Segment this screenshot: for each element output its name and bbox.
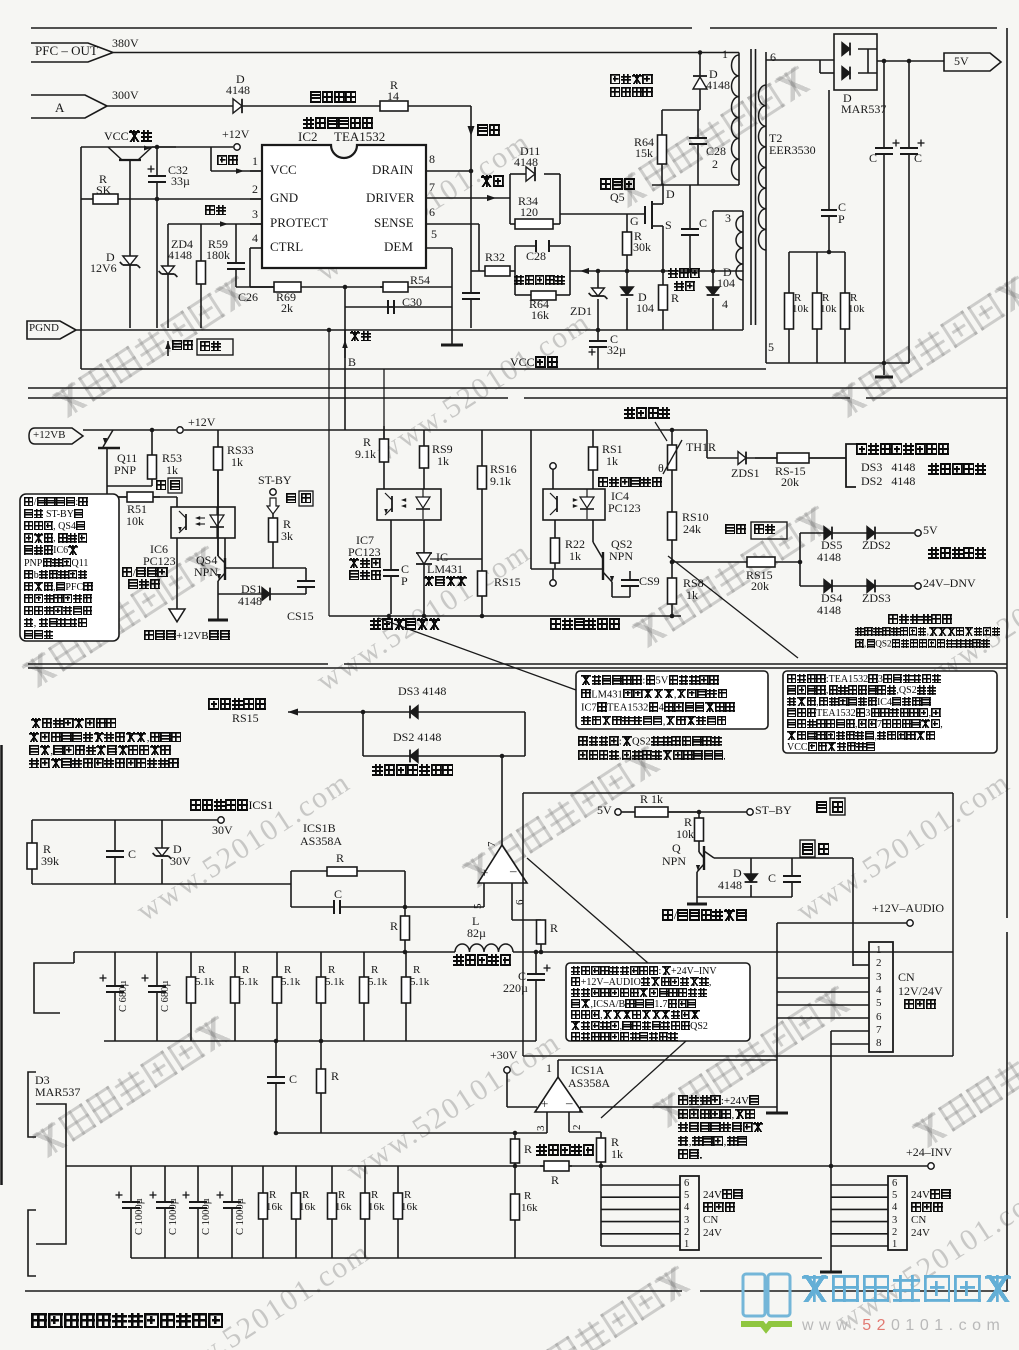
label 4148 ds4 [817,604,841,617]
pin 3 cn [876,972,882,984]
pin cn24L 1 [684,1239,689,1250]
resistor RS15 mid [478,559,487,616]
label R fb [336,852,344,865]
wire x384 vertical from VCC rail [383,369,385,439]
label 4148 [168,249,192,262]
label kai boxed 1 [301,493,312,506]
wire gate Q5 [560,213,645,215]
label 4148 ds5 [817,551,841,564]
label +12V-AUDIO [872,902,944,915]
pin cn24L 4 [684,1202,689,1213]
label D 30v [173,843,182,856]
node PFC-OUT flag [31,43,113,53]
CN pin stubs [853,951,869,953]
ground IC6 [169,609,185,622]
wire pin2 jog [569,1131,601,1133]
pin 8 [429,153,435,166]
capacitor C1000u 0 [116,1166,141,1258]
textbox1 line7 [24,582,93,594]
label guodianya-baohu [928,547,986,560]
label quyang-wucha [370,618,440,631]
resistor R5.1k 0 [187,952,196,1041]
label R51k a5 [413,965,420,977]
wire pin6 lead [766,59,834,61]
resistor R 1k s4 [621,807,699,817]
resistor R SK [81,194,130,204]
label R51k a3 [328,965,335,977]
resistor R53 1k [148,430,157,486]
label guodianliu-baohu [514,275,565,287]
wire secondary bottom rail [766,362,909,364]
label guan s4 [816,801,828,814]
label R54 [410,274,430,287]
pin cn24R 6 [892,1178,897,1189]
ground DEM [441,344,463,347]
label kaiguanji-daoxiang [662,909,747,922]
label LM431 [427,563,463,576]
label C out2 [914,152,922,165]
weixiu-tip l2 [578,750,727,762]
label - a [566,1096,573,1110]
label pin5 [768,341,774,354]
label R32 [485,251,505,264]
pin cn24L 5 [684,1190,689,1201]
pin 3 [252,208,258,221]
label R bl [390,920,398,933]
pin5 ics1b [473,904,485,910]
wire left connector feed [600,1166,602,1246]
wire DS3-DS2 link right [524,712,526,756]
resistor R59 180k [197,224,206,328]
resistor R 10k b [813,252,822,363]
diode ZD4 4148 [159,266,178,277]
textbox2 line0 [581,675,719,687]
resistor R16k 3 [361,1166,370,1258]
label 220u [503,982,528,995]
label R p6 [550,922,558,935]
label R51k b3 [325,977,344,989]
label IC4 [611,490,629,503]
label jianfeng [610,74,653,87]
wire DS3-DS2 link left [362,712,364,756]
label RS-15 [775,465,806,478]
label pin6 [770,51,776,64]
leader ICS1B to box [527,858,648,963]
resistor R5.1k 3 [317,952,326,1041]
pin 4 cn [876,985,882,997]
label qudong-kongzhi [303,117,373,130]
wire audio vertical [776,923,778,1107]
label R69 [276,291,296,304]
wire res top rail [789,251,845,253]
label 120 [520,206,538,219]
resistor RS10 24k [668,512,677,562]
node A flag [31,95,107,106]
label 24v-outR1 [911,1189,951,1202]
label 9.1k rs16 [490,475,511,488]
label + a [541,1097,548,1111]
label R [99,173,107,186]
label ZD1 [570,305,592,318]
label pin3 [725,212,731,225]
arrow hollow STBY [267,498,279,514]
label R oc [524,1143,532,1156]
resistor R 10k c [841,252,850,363]
label kaiguanguan [600,178,635,191]
transistor QS4 NPN [217,470,225,620]
resistor R5.1k 4 [360,952,369,1041]
label guodianliu [668,268,700,281]
text24v line1 [678,1109,756,1122]
label C s4 [768,872,776,885]
label RS9 [432,443,453,456]
capacitor C 32u [589,330,608,369]
protect circuit text box [783,671,997,753]
resistor R16k 4 [394,1166,403,1258]
pin cn24R 3 [892,1215,897,1226]
erci l1 [31,718,117,731]
wire R14 to startup node [408,105,471,107]
label RS10 [682,511,709,524]
label VCC-gongdian [510,356,558,369]
resistor RS15 20k low [747,557,775,567]
label T2 [769,132,782,145]
label R 3k [283,518,291,531]
resistor R 10k s4 [695,812,704,852]
feedback loop ICS1B [290,871,292,907]
bracket overcurrent sense [846,444,856,487]
label +12VB [33,430,65,442]
label DS4 [821,592,842,605]
label qu-baohu [190,799,273,812]
resistor R5.1k 5 [402,952,411,1041]
label 30V [212,824,233,837]
text boxes row [576,671,768,729]
caption [31,1312,224,1330]
pin 6 cn [876,1012,882,1024]
label DS2 4148 [393,731,441,744]
label C 220 [518,970,526,983]
label R16k a2 [338,1190,345,1202]
label 24v-out L2 [703,1202,735,1215]
label wucha-fangda [424,576,467,589]
label R51k b0 [195,977,214,989]
label jie-baohu [208,698,266,711]
node +30V terminal [504,1067,510,1073]
wire R69-R54 bus [236,286,452,288]
pin 7 cn [876,1025,882,1037]
resistor R69 2k [250,282,301,292]
wire pin1 out [558,1059,777,1061]
capacitor CS15 [297,568,315,594]
CN 24V left stubs [601,1184,680,1186]
weixiu-tip l1 [578,736,722,748]
label IC lm431 [436,551,448,564]
resistor R32 [471,266,515,276]
logo url [802,1317,1005,1334]
label 5V out [954,55,969,68]
resistor R14 [380,101,408,111]
diode D 104 b [707,287,720,295]
wire emitter to +12V [152,146,233,148]
label 32u [607,344,626,357]
label A [55,101,64,115]
label 1k rs8 [686,589,698,602]
resistor RS9 1k [420,430,429,489]
diode DS1 4148 [262,588,270,601]
label 12V6 [90,262,117,275]
wire zener to PGND [129,265,131,328]
resistor R5.1k 2 [273,952,282,1041]
label guan boxed [170,480,181,493]
label kaiguanji-guang [122,567,168,580]
wire 12VB rail [83,429,176,431]
label guodianliu-quyang s4 [536,1144,594,1157]
textbox2 line3 [581,716,727,728]
frame section divider 2b [28,667,1007,669]
label 24v-out L3 [703,1215,718,1227]
textbox1 line0 [24,497,88,509]
label R59 [208,238,228,251]
wire vertical DS rows [799,533,801,586]
label 14 [387,90,399,103]
node PGND flag [27,321,76,339]
wire loop to pin5 [405,906,484,908]
test point circle IC4 bottom [552,569,554,580]
label C680 1 [160,981,171,1012]
label R51 [127,503,147,516]
wire QS2 emitter row [612,596,630,598]
diode ZDS2 [867,527,875,540]
label lianjieqi cn1 [904,999,936,1012]
label R16k a0 [269,1190,276,1202]
capacitor C out2 [900,61,925,363]
label D snub [709,68,718,81]
label PFC-OUT [35,44,98,58]
label NPN qs2 [609,550,633,563]
label 3k [281,530,293,543]
label R 39k a [43,843,51,856]
wire left vertical VCC [80,147,82,369]
optocoupler IC7 PC123 box [377,489,441,520]
label R51k b2 [281,977,300,989]
wire D11/R34 loop [509,174,511,224]
wire mid bottom bus [329,615,681,617]
wire IC7 right pin to LM431 [423,520,425,553]
label L [472,915,479,928]
label R16k b2 [335,1202,352,1214]
diode D 4148 snubber [693,53,707,111]
label ZDS2 [862,539,891,552]
label ST-BY [258,474,292,487]
textbox1 line6 [24,570,87,582]
label guodianliu-baohu 2 [928,463,986,476]
wire SENSE pin6 [426,223,479,225]
wire QS2 branch from top bus [530,430,532,569]
label RS33 [227,444,254,457]
wire 300V to D [107,105,233,107]
label R53 [162,452,182,465]
wire 30V rail [32,819,218,821]
label zhengchang [172,340,193,353]
wire rail left end down [73,952,75,963]
wire opamp right base [579,1107,581,1112]
leader to protect box [668,556,798,658]
resistor R5.1k 1 [231,952,240,1041]
pin 6 [429,206,435,219]
label R16k b4 [401,1202,418,1214]
label C p2 [401,563,409,576]
label TH1R [686,441,716,454]
textbox1 line3 [24,533,87,545]
wire DEM pin5 vertical [426,247,452,249]
thermistor TH1R [663,428,682,512]
label guan boxed s4 [802,843,814,856]
node ST-BY terminal [270,489,276,495]
optocoupler IC4 PC123 box [543,489,605,520]
wire C30 branch [345,306,452,308]
label R mid4 [331,1070,339,1083]
label - b [510,864,517,878]
label SK [96,184,111,197]
label wenya-guang [349,558,381,571]
label R51k a4 [371,965,378,977]
label R51k a0 [198,965,205,977]
label kai s4 boxed [832,801,844,814]
erci l4 [29,758,179,771]
pin cn24R 1 [892,1239,897,1250]
label C1000 2 [201,1198,212,1235]
wire filter bottom rail [32,883,291,885]
label 24k [683,523,701,536]
transformer T2 secondary winding [765,52,767,363]
textbox1 line11 [24,630,53,642]
pin 8 cn [876,1038,882,1050]
label R16k b0 [266,1202,283,1214]
label qidong [477,124,500,137]
wire audio rail [777,922,907,924]
label jili [481,175,504,188]
label C filt [128,848,136,861]
pin name GND [270,191,298,205]
label PNP [114,464,136,477]
label wenya [350,331,371,344]
winding primary 3-4 [736,216,743,280]
logo site name [801,1274,1014,1305]
leader box to ICS1A [601,1041,686,1118]
resistor RS1 1k [589,430,598,489]
resistor R64 15k [658,110,667,185]
wire x329 vertical [328,330,330,616]
label ZDS3 [862,592,891,605]
label kai [156,480,167,493]
textbox1 line8 [24,594,92,606]
connector CN 12V/24V box [869,942,893,1052]
label R51k b1 [239,977,258,989]
label 12V/24V [898,985,943,998]
label QS4 [196,554,217,567]
wire bottom rail 24V [131,1257,822,1259]
label PC123 ic6 [143,555,176,568]
resistor R 1k a4 [597,1132,606,1166]
label C680 0 [118,981,129,1012]
label 10kc [848,304,865,316]
label R16k b6 [521,1203,538,1215]
ground secondary [875,376,893,379]
label guodianliu-quyang 4 [453,954,511,967]
label D mar [843,92,852,105]
textbox4 line1 [571,977,711,989]
pin3 ics1a [536,1126,548,1132]
rectifier D MAR537 box [834,34,877,90]
label C26 [238,291,258,304]
diode ZDS3 [867,580,875,593]
label MAR537 d3 [35,1086,80,1099]
wire Q11 collector to R51 [107,485,152,487]
diode D 30V zener [161,820,163,848]
transistor QS2 NPN [593,520,614,597]
label ICS1A [571,1064,604,1077]
resistor R16k 0 [259,1166,268,1258]
textbox4 line6 [571,1032,678,1044]
label 1k rs33 [231,456,243,469]
diode ZD1 [597,271,599,288]
resistor R oc [511,1133,520,1166]
node 5V s4 [615,809,621,815]
winding secondary [759,85,766,250]
pin cn24R 2 [892,1227,897,1238]
label DS1 [241,583,262,596]
text24v line3 [678,1136,748,1149]
pin name CTRL [270,240,303,254]
label R22 [565,538,585,551]
label R sense [671,292,679,305]
node +12V mid terminal [177,427,183,433]
transformer core [750,49,752,325]
op-amp ICS1B AS358A [478,756,527,920]
resistor R 30k [623,214,632,271]
wire 380V bus [113,52,739,54]
capacitor C1000u 1 [150,1166,175,1258]
wire QS4 base [225,567,306,569]
wire startup vertical [470,106,472,293]
pin 7 [429,181,435,194]
rectifier D3 MAR537 block [28,1072,36,1137]
frame top border [31,27,692,29]
wire R51 to IC6 [153,496,177,498]
label guan-kai 2 [800,840,815,857]
label 24v-out L4 [703,1228,722,1240]
label 30V z [170,855,191,868]
label kaiguanji+12VB [144,630,230,643]
wire ground s4 [580,1106,777,1108]
text24v line0 [678,1095,760,1108]
label D [106,251,115,264]
resistor R 9.1k [380,426,389,489]
label 380V [112,37,139,50]
pin cn24L 3 [684,1215,689,1226]
wire DS1 row [218,593,306,595]
op-amp IC2 TEA1532 box [262,145,426,268]
label EER3530 [769,144,816,157]
label guan kai 1 [286,493,297,506]
label 20k low [751,580,769,593]
node +12VB flag [29,428,83,444]
resistor R16k 6 [511,1166,520,1258]
inductor L 82u [455,944,513,952]
capacitor C s4 [783,858,801,897]
label Q11 [117,452,137,465]
